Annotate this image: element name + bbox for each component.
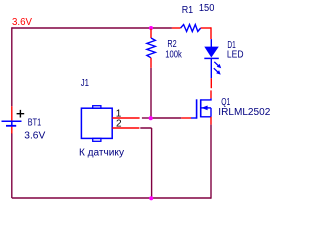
pin number 1	[116, 109, 122, 120]
LED D1	[204, 39, 219, 78]
wire bottom rail	[12, 197, 211, 199]
wire top rail	[12, 27, 172, 29]
junction node bottom (J1 pin2 / bottom rail)	[149, 196, 153, 200]
connector J1	[81, 106, 112, 142]
wire left column upper	[11, 27, 13, 106]
junction node top (R2 / top rail)	[149, 26, 153, 30]
wire gate node to Q1 gate	[151, 117, 181, 119]
label J1	[81, 78, 90, 89]
label R2	[167, 39, 177, 50]
battery plus sign	[17, 110, 25, 118]
label Q1	[221, 97, 230, 108]
svg-text:IRLML2502: IRLML2502	[218, 107, 270, 118]
label BT1	[28, 118, 42, 129]
label IRLML2502	[218, 107, 270, 118]
label 100k	[165, 50, 182, 61]
label 150	[199, 3, 215, 14]
resistor R1	[172, 25, 211, 40]
wire R2 bottom to gate node	[150, 68, 152, 118]
pin number 2	[116, 119, 122, 130]
battery BT1	[2, 106, 22, 133]
wire left column lower	[11, 133, 13, 198]
svg-text:R2: R2	[167, 39, 177, 50]
svg-text:150: 150	[199, 3, 215, 14]
transistor Q1	[191, 90, 211, 124]
wire gate red lead	[181, 117, 191, 119]
svg-text:100k: 100k	[165, 50, 182, 61]
wire right column (Q1 source to bottom rail)	[210, 125, 212, 199]
label R1	[182, 5, 194, 16]
wire J1 pin2 to bottom rail	[140, 128, 151, 198]
J1 pin 1 lead	[112, 117, 139, 119]
svg-text:3.6V: 3.6V	[24, 130, 45, 141]
svg-text:2: 2	[116, 119, 122, 130]
net label 3.6V	[12, 17, 32, 28]
label LED	[227, 49, 244, 60]
LED D1 emission arrows	[214, 62, 221, 75]
J1 pin 2 lead	[112, 127, 139, 129]
svg-text:LED: LED	[227, 49, 244, 60]
svg-text:3.6V: 3.6V	[12, 17, 32, 28]
svg-text:BT1: BT1	[28, 118, 42, 129]
svg-text:К датчику: К датчику	[79, 148, 124, 159]
wire D1 cathode to Q1 drain	[210, 78, 212, 88]
label 3.6V (battery value)	[24, 130, 45, 141]
resistor R2	[147, 29, 155, 68]
svg-text:J1: J1	[81, 78, 90, 89]
label D1	[227, 40, 236, 51]
svg-text:R1: R1	[182, 5, 194, 16]
wire J1 pin1 to gate node	[142, 117, 151, 119]
junction node gate (J1 pin1 / R2 / Q1 gate)	[149, 116, 153, 120]
label K datchiku	[79, 148, 124, 159]
